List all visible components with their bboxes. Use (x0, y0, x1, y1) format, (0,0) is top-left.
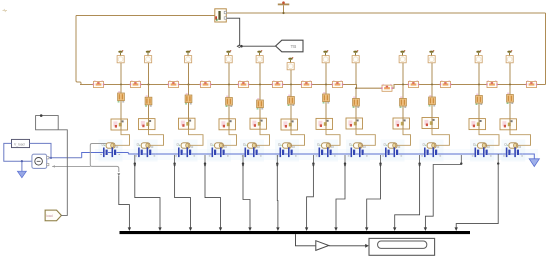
wire: V_load right branch (30, 143, 52, 157)
wire: bar to gain (296, 234, 316, 246)
cell temperature sensor D7 (317, 143, 333, 148)
wire: block CV5 to thermal mass 5 (259, 108, 261, 119)
battery cell B3 (175, 148, 195, 158)
wire: block CV4 to thermal mass 4 (228, 105, 230, 119)
thermal mass block M2 (139, 119, 156, 130)
wire: tap 10 to bar (425, 164, 461, 228)
thermal conduction block K8 on bus (332, 80, 344, 87)
node: cell junction tap 3 (204, 155, 206, 163)
wire: bus to convection block 12 (509, 85, 511, 95)
thermal mass block M1 (111, 119, 128, 130)
wire: thermal mass 12 to cell sensor 12 (510, 130, 531, 146)
cell temperature sensor D5 (243, 143, 259, 148)
cell temperature sensor D3 (177, 143, 193, 148)
wire: thermal mass 9 to cell sensor 9 (397, 129, 410, 145)
node: cell junction tap 9 (419, 155, 421, 163)
wire: thermal top run (left of sensor) (76, 15, 215, 17)
heat flow source Q12 (506, 50, 513, 63)
battery cell B2 (135, 148, 155, 158)
convective heat transfer block CV4 (226, 96, 233, 107)
heat flow source Q9 (399, 50, 406, 63)
wire: source Q5 to bus (259, 63, 261, 85)
battery cell B5 (242, 148, 262, 158)
wire: block CV1 to thermal mass 1 (120, 101, 122, 119)
wire: tap 4 to bar (243, 164, 250, 228)
wire: thermal top run (right of sensor) (226, 12, 545, 14)
node: cell junction tap 4 (242, 155, 244, 163)
svg-text:V_load: V_load (14, 142, 25, 146)
wire: thermal mass 2 to cell sensor 2 (149, 130, 164, 146)
wire: tap 7 to bar (336, 164, 345, 228)
thermal mass block M10 (422, 118, 439, 129)
wire: tap 8 to bar (367, 164, 381, 228)
node: bus junction column 1 (120, 84, 122, 86)
wire: bus to convection block 2 (148, 85, 150, 98)
wire: source Q9 to bus (402, 63, 404, 85)
wire: pack positive tap to bar (119, 176, 130, 228)
wire: tap 9 to bar (395, 164, 420, 228)
thermal mass block M6 (281, 119, 298, 130)
wire: source Q6 to bus (290, 70, 292, 85)
wire: tap 6 to bar (307, 164, 314, 228)
node: bus junction column 10 (431, 84, 433, 86)
wire: block CV8 to thermal mass 8 (355, 106, 357, 118)
measurement bus bar (120, 231, 471, 234)
heat flow source Q2 (145, 50, 152, 63)
thermal mass block M11 (469, 119, 486, 130)
wire: junction to TB tag (241, 45, 276, 47)
convective heat transfer block CV2 (145, 95, 152, 106)
node: junction on command loop (40, 114, 43, 117)
node: cell junction tap 8 (380, 155, 382, 163)
node: cell junction tap 6 (312, 155, 314, 163)
heat flow source Q4 (225, 50, 232, 63)
wire: block CV7 to thermal mass 7 (325, 102, 327, 119)
convective heat transfer block CV12 (507, 93, 514, 104)
wire: tap 3 to bar (205, 164, 221, 228)
cell temperature sensor D6 (278, 143, 294, 148)
convective heat transfer block CV10 (429, 95, 436, 106)
thermal conduction block K13 on bus (526, 80, 538, 87)
wire: V_load left loop (4, 143, 32, 161)
open arrow left of junction (237, 45, 240, 48)
wire: source Q2 to bus (148, 63, 150, 85)
wire: block CV2 to thermal mass 2 (148, 105, 150, 119)
battery cell B8 (348, 148, 368, 158)
node: cell junction tap 2 (174, 155, 176, 163)
wire: thermal loop right vertical (545, 13, 547, 85)
wire: bus to convection block 8 (355, 88, 357, 98)
controlled current source (load) (32, 154, 49, 168)
label block V_load (12, 139, 30, 147)
wire: tap 5 to bar (276, 164, 279, 228)
wire: block CV12 to thermal mass 12 (509, 102, 511, 119)
convective heat transfer block CV8 (353, 97, 360, 108)
node: bus junction column 3 (188, 84, 190, 86)
wire: thermal mass 7 to cell sensor 7 (326, 129, 340, 145)
wire: block CV10 to thermal mass 10 (431, 105, 433, 118)
svg-text:load: load (46, 214, 53, 218)
node: cell junction tap 10 (460, 155, 462, 163)
thermal conduction block K5 on bus (238, 80, 250, 87)
heat flow source Q8 (352, 50, 359, 63)
thermal conduction block K4 on bus (200, 80, 212, 87)
from tag (load) (45, 210, 61, 221)
thermal conduction block K2 on bus (130, 80, 142, 87)
thermal mass block M5 (250, 118, 267, 129)
node: cell junction tap 1 (134, 155, 136, 163)
convective heat transfer block CV5 (257, 98, 264, 109)
battery cell B12 (503, 148, 523, 158)
wire: thermal mass 11 to cell sensor 11 (479, 130, 499, 146)
thermal conduction block K9 on bus (381, 84, 393, 91)
heat flow source Q7 (322, 50, 329, 63)
battery cell B10 (421, 148, 441, 158)
thermal conduction block K3 on bus (168, 80, 180, 87)
wire: source Q10 to bus (431, 63, 433, 85)
heat flow source Q6 (287, 57, 294, 70)
wire: tap 2 to bar (175, 164, 191, 228)
wire: source Q3 to bus (188, 63, 190, 85)
wire: source Q4 to bus (228, 63, 230, 85)
wire: bus to convection block 4 (228, 85, 230, 98)
svg-text:TB: TB (291, 44, 297, 49)
node: cell junction tap 5 (276, 155, 278, 163)
stray toolbar mark top-left (3, 9, 8, 12)
arrowhead into scope (365, 244, 369, 248)
wire: block CV3 to thermal mass 3 (188, 103, 190, 119)
cell temperature sensor D11 (473, 143, 489, 148)
cell temperature sensor D2 (137, 143, 153, 148)
battery cell B7 (316, 148, 336, 158)
wire: thermal bus main (80, 85, 546, 89)
node: bus junction column 5 (259, 84, 261, 86)
node: bus junction column 12 (509, 84, 511, 86)
cell temperature sensor D9 (384, 143, 400, 148)
thermal mass block M8 (346, 118, 363, 129)
convective heat transfer block CV6 (288, 95, 295, 106)
convective heat transfer block CV9 (400, 97, 407, 108)
cell temperature sensor D8 (349, 143, 365, 148)
wire: source Q7 to bus (325, 63, 327, 85)
wire: sensor signal to TB tag (227, 18, 240, 46)
wire: gain to scope (329, 245, 366, 247)
ambient temperature source T-symbol (278, 1, 290, 13)
node: bus junction column 9 (402, 84, 404, 86)
thermal mass block M7 (316, 118, 333, 129)
convective heat transfer block CV3 (185, 93, 192, 104)
convective heat transfer block CV11 (476, 94, 483, 105)
wire: command loop rectangle (36, 116, 59, 130)
thermal conduction block K11 on bus (440, 80, 452, 87)
thermal conduction block K1 on bus (93, 80, 105, 87)
battery cell B9 (382, 148, 402, 158)
battery cell B6 (277, 148, 297, 158)
wire: bus to convection block 11 (478, 85, 480, 96)
goto tag TB (276, 40, 303, 52)
cell temperature sensor D10 (423, 143, 439, 148)
heat flow source Q5 (256, 50, 263, 63)
node: bus junction column 4 (228, 84, 230, 86)
node: junction on sensor signal (240, 45, 243, 48)
thermal mass block M4 (219, 119, 236, 130)
wire: from tag up to command loop (58, 130, 67, 216)
wire: electrical series line (82, 153, 535, 159)
node: junction at source output (50, 157, 52, 159)
battery cell B11 (472, 148, 492, 158)
node: bus junction column 11 (478, 84, 480, 86)
convective heat transfer block CV7 (323, 92, 330, 103)
battery cell B1 (100, 148, 120, 158)
wire: block CV11 to thermal mass 11 (478, 103, 480, 119)
wire: bus to convection block 7 (325, 85, 327, 95)
node: junction at ground branch (21, 160, 23, 162)
wire: bus to convection block 6 (290, 85, 292, 97)
wire: block CV9 to thermal mass 9 (402, 106, 404, 118)
thermal mass block M3 (179, 118, 196, 129)
convective heat transfer block CV1 (118, 91, 125, 102)
cell temperature sensor D4 (210, 143, 226, 148)
arrowhead on sense wire (117, 173, 120, 176)
wire: tap 1 to bar (135, 164, 160, 228)
wire: source to battery string (49, 157, 82, 159)
electrical ground (17, 161, 26, 178)
node: cell junction tap 11 (497, 154, 499, 163)
battery row halo band (95, 149, 538, 160)
gain block (316, 241, 329, 251)
wire: thermal mass 4 to cell sensor 4 (224, 130, 237, 146)
heat flow source Q10 (428, 50, 435, 63)
node: cell junction tap 7 (344, 155, 346, 163)
scope / record block (369, 238, 435, 255)
wire: source Q8 to bus (355, 63, 357, 85)
heat flow source Q3 (185, 50, 192, 63)
wire: thermal mass 6 to cell sensor 6 (291, 130, 305, 145)
thermal mass block M12 (500, 119, 517, 130)
heat flow source Q1 (117, 50, 124, 63)
wire: bus to convection block 5 (259, 85, 261, 101)
wire: thermal mass 10 to cell sensor 10 (432, 129, 449, 146)
wire: bus to convection block 10 (431, 85, 433, 98)
thermal conduction block K12 on bus (486, 80, 498, 87)
wire: source Q12 to bus (509, 63, 511, 85)
wire: bus to convection block 9 (402, 85, 404, 99)
wire: thermal loop left vertical (76, 16, 81, 85)
battery cell B4 (209, 148, 229, 158)
wire: tap 11 to bar (456, 164, 498, 228)
wire: bus to convection block 3 (188, 85, 190, 96)
wire: thermal mass 3 to cell sensor 3 (189, 129, 204, 145)
wire: cell1 sensor output hook (90, 144, 119, 173)
heat-flow sensor block (215, 9, 227, 22)
node: bus junction at temperature source (282, 12, 284, 14)
node: bus junction column 8 (355, 87, 357, 89)
wire: block CV6 to thermal mass 6 (290, 104, 292, 119)
wire: thermal mass 1 to cell sensor 1 (115, 130, 129, 145)
node: bus junction column 2 (148, 84, 150, 86)
wire: bus to convection block 1 (120, 85, 122, 94)
thermal conduction block K7 on bus (301, 80, 313, 87)
cell temperature sensor D1 (102, 143, 118, 148)
node: bus junction column 7 (325, 84, 327, 86)
wire: thermal mass 8 to cell sensor 8 (356, 129, 375, 145)
wire: thermal mass 5 to cell sensor 5 (257, 129, 270, 145)
thermal conduction block K6 on bus (272, 80, 284, 87)
heat flow source Q11 (475, 50, 482, 63)
cell temperature sensor D12 (505, 143, 521, 148)
terminator arrow at right end of electrical line (529, 159, 539, 167)
wire: source Q1 to bus (120, 63, 122, 85)
wire: hook branch into source measure port (52, 165, 90, 167)
node: bus junction column 6 (290, 84, 292, 86)
wire: source Q11 to bus (478, 63, 480, 85)
thermal mass block M9 (393, 118, 410, 129)
thermal conduction block K10 on bus (408, 80, 420, 87)
